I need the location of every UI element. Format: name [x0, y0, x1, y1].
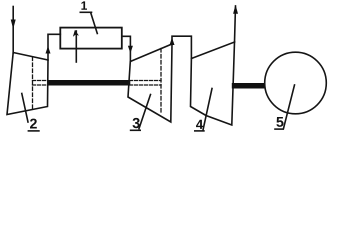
- compressor hidden shaft dashed vertical: [32, 57, 34, 109]
- shaft compressor-turbine3: [48, 80, 130, 86]
- label 4 text: [196, 120, 203, 129]
- label 5 leader: [284, 85, 295, 129]
- fuel arrowhead (up, tilted left): [73, 30, 79, 37]
- turbine3 hidden shaft dashed vertical: [160, 49, 162, 114]
- combustion chamber B1 box: [60, 28, 122, 49]
- label 4 leader: [203, 89, 212, 131]
- label 3 leader: [139, 95, 151, 129]
- label 1 leader: [91, 13, 98, 34]
- label 1 underline: [80, 11, 91, 13]
- fuel line: [75, 31, 77, 62]
- label 5 text: [276, 117, 283, 127]
- label 2 text: [30, 119, 37, 129]
- turbine T3 body: [128, 44, 172, 122]
- turbine T4 body: [191, 42, 235, 125]
- combustor outlet arrowhead (down): [128, 46, 133, 53]
- shaft turbine4-generator: [232, 83, 265, 89]
- air inlet line: [12, 7, 14, 54]
- compressor outlet duct: [48, 34, 60, 60]
- compressor hidden shaft dashed horizontals: [33, 80, 49, 82]
- label 5 underline: [275, 128, 283, 130]
- interconnect arrowhead (up): [170, 38, 175, 46]
- generator G5 circle: [265, 52, 327, 114]
- label 1 text: [81, 1, 87, 9]
- exhaust arrowhead (up): [233, 5, 238, 14]
- turbine3 hidden shaft dashed horizontals: [130, 80, 162, 82]
- label 2 leader: [22, 94, 28, 123]
- label 3 underline: [131, 129, 141, 131]
- exhaust line: [235, 6, 236, 42]
- air inlet arrowhead: [11, 20, 16, 30]
- label 3 text: [133, 118, 140, 128]
- combustor outlet duct: [122, 36, 131, 61]
- interconnect duct turbine3 to turbine4: [172, 36, 191, 58]
- compressor C2 body: [7, 53, 48, 115]
- label 2 underline: [28, 130, 39, 132]
- compressor outlet arrowhead (up): [46, 46, 51, 54]
- label 4 underline: [195, 130, 204, 132]
